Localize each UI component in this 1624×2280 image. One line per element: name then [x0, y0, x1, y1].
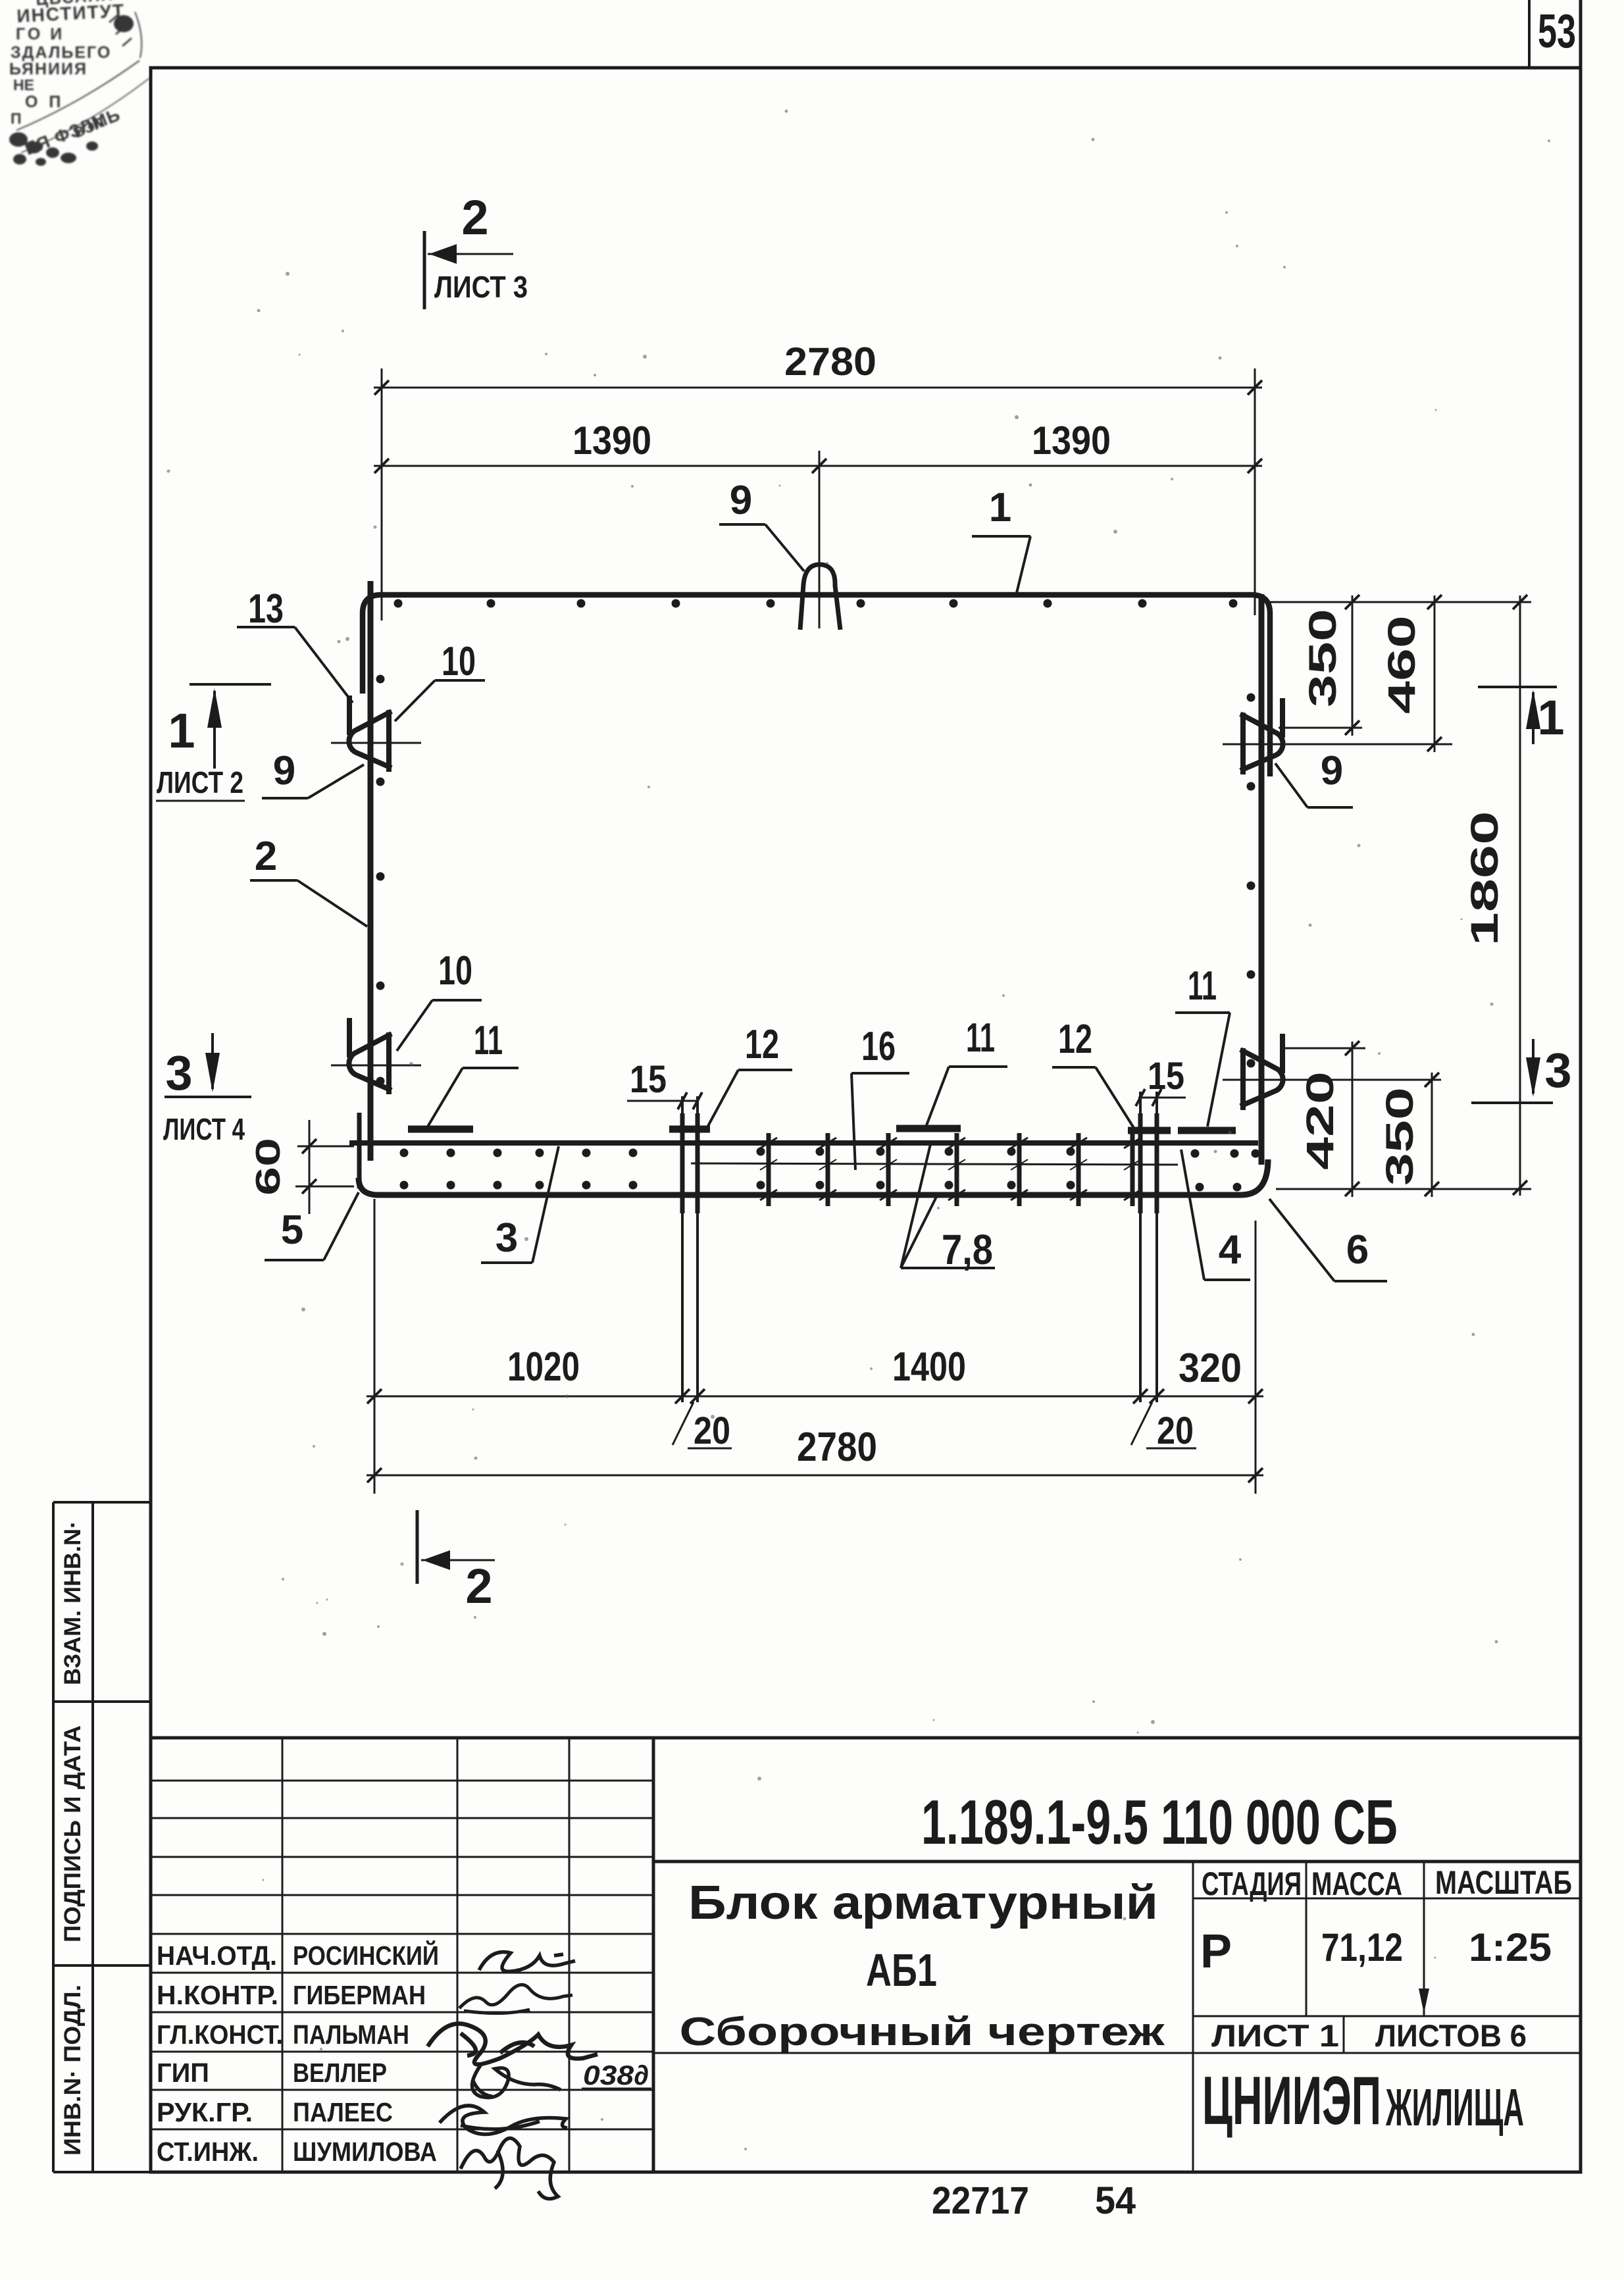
svg-text:Блок арматурный: Блок арматурный	[688, 1877, 1158, 1929]
signature Palman	[428, 2023, 597, 2064]
svg-text:ИНСТИТУТ: ИНСТИТУТ	[16, 0, 126, 26]
svg-text:ГЛ.КОНСТ.: ГЛ.КОНСТ.	[157, 2019, 283, 2050]
weld plate 11 middle-right	[896, 1125, 961, 1132]
label 11 right	[1175, 963, 1230, 1127]
rebar 5: bottom-left stub	[357, 1113, 362, 1188]
section marker 2 bottom	[417, 1510, 495, 1613]
label 6	[1269, 1199, 1387, 1281]
svg-text:350: 350	[1379, 1087, 1421, 1186]
svg-text:60: 60	[249, 1138, 288, 1196]
svg-text:1: 1	[989, 485, 1011, 530]
svg-text:16: 16	[861, 1024, 896, 1069]
svg-text:ЛИСТ 4: ЛИСТ 4	[163, 1112, 245, 1146]
svg-text:ЬЯНИИЯ: ЬЯНИИЯ	[9, 60, 88, 78]
svg-text:ИНВ.N· ПОДЛ.: ИНВ.N· ПОДЛ.	[60, 1985, 86, 2156]
svg-text:038∂: 038∂	[583, 2060, 649, 2090]
label 9 top center	[719, 478, 804, 571]
signature Shumilova	[461, 2138, 558, 2198]
dimension 60 bottom left	[249, 1120, 354, 1214]
svg-text:МАССА: МАССА	[1311, 1865, 1402, 1902]
svg-text:ШУМИЛОВА: ШУМИЛОВА	[293, 2137, 437, 2167]
sheet number 53 box	[1529, 0, 1576, 68]
signature Giberman	[459, 1985, 572, 2013]
svg-text:ВЗАМ. ИНВ.N·: ВЗАМ. ИНВ.N·	[60, 1521, 86, 1685]
svg-text:ГО И: ГО И	[16, 25, 64, 43]
dimension 15 right	[1136, 1055, 1186, 1106]
svg-text:2: 2	[461, 190, 488, 245]
svg-text:71,12: 71,12	[1321, 1925, 1403, 1969]
svg-text:1: 1	[168, 703, 195, 758]
signature Veller	[472, 2064, 561, 2098]
label 10 upper	[395, 639, 485, 721]
svg-text:10: 10	[442, 639, 476, 684]
weld plate 12 right	[1128, 1127, 1171, 1134]
signature Rosinskiy	[479, 1952, 575, 1971]
svg-text:ПАЛЬМАН: ПАЛЬМАН	[293, 2019, 409, 2050]
svg-text:П: П	[11, 110, 22, 127]
svg-text:ЖИЛИЩА: ЖИЛИЩА	[1385, 2078, 1524, 2137]
svg-text:Сборочный чертеж: Сборочный чертеж	[680, 2010, 1166, 2054]
label 12 left	[707, 1022, 792, 1127]
svg-text:3: 3	[165, 1046, 192, 1100]
svg-text:5: 5	[281, 1207, 303, 1253]
svg-text:11: 11	[966, 1015, 995, 1061]
section marker 1 left, to sheet 2	[156, 684, 271, 801]
dimension 1860 right	[1276, 595, 1531, 1196]
section marker 1 right	[1478, 687, 1565, 745]
rebar pair and ext lines at right 20 gap	[1140, 1092, 1157, 1402]
crossing rebars 7,8 with weld ticks	[760, 1133, 1141, 1206]
svg-text:6: 6	[1346, 1227, 1369, 1273]
label 5	[265, 1192, 359, 1260]
svg-text:2: 2	[465, 1559, 492, 1613]
svg-text:ГИП: ГИП	[157, 2058, 209, 2088]
svg-text:1.189.1-9.5 110 000 СБ: 1.189.1-9.5 110 000 СБ	[921, 1787, 1398, 1858]
svg-text:320: 320	[1179, 1346, 1242, 1391]
svg-text:ЛИСТ 1: ЛИСТ 1	[1211, 2018, 1339, 2053]
label 20 right	[1131, 1402, 1196, 1452]
dimension 420 bottom right	[1285, 1041, 1365, 1197]
lifting loop 9 top center	[800, 565, 840, 630]
hook 9 upper right	[1240, 698, 1283, 774]
label 16	[851, 1024, 909, 1170]
bottom dimension row 1020 1400 320	[367, 1199, 1263, 1494]
rebar right vertical bar	[1259, 594, 1265, 1165]
label 13	[237, 586, 353, 703]
svg-text:12: 12	[745, 1022, 779, 1067]
rebar pair and ext lines at left 20 gap	[682, 1096, 698, 1402]
thin distribution bar 16	[691, 1163, 1178, 1165]
svg-text:1:25: 1:25	[1469, 1925, 1552, 1969]
dimension 15 left	[627, 1058, 702, 1109]
svg-text:1390: 1390	[1032, 418, 1111, 463]
archive footer numbers 22717 54	[932, 2179, 1136, 2222]
svg-text:20: 20	[1157, 1409, 1194, 1452]
svg-text:9: 9	[273, 748, 295, 794]
svg-text:ЦНИИЭП: ЦНИИЭП	[1202, 2063, 1381, 2139]
svg-text:15: 15	[1148, 1055, 1184, 1098]
dimension 460 top right	[1381, 595, 1442, 752]
dimension 1390+1390	[374, 418, 1262, 473]
svg-text:РОСИНСКИЙ: РОСИНСКИЙ	[293, 1940, 439, 1971]
svg-text:ЛИСТ 2: ЛИСТ 2	[157, 765, 243, 799]
bottom dimension 2780	[367, 1425, 1263, 1482]
weld plate 12 left	[669, 1126, 710, 1133]
section marker 3 left, to sheet 4	[163, 1033, 251, 1146]
svg-text:1: 1	[1537, 690, 1564, 745]
drawing name	[680, 1877, 1166, 2054]
svg-text:АБ1: АБ1	[866, 1944, 937, 1996]
svg-text:Р: Р	[1200, 1925, 1232, 1978]
label 11 middle	[926, 1015, 1007, 1125]
rebar 6: bottom chord bottom line with corners	[359, 1159, 1268, 1195]
weld plate 11 right	[1178, 1127, 1236, 1134]
label 1	[972, 485, 1030, 593]
svg-text:420: 420	[1299, 1071, 1342, 1170]
svg-text:3: 3	[495, 1215, 518, 1261]
svg-text:4: 4	[1219, 1227, 1242, 1273]
stadia massa masshtab row	[1200, 1864, 1572, 2053]
rebar 2: left vertical bar	[368, 581, 374, 1161]
svg-text:10: 10	[438, 948, 472, 994]
svg-text:11: 11	[1188, 963, 1217, 1009]
svg-text:ЛИСТОВ 6: ЛИСТОВ 6	[1375, 2018, 1527, 2053]
svg-text:9: 9	[730, 478, 752, 523]
svg-text:ЗДАЛЬЕГО: ЗДАЛЬЕГО	[11, 43, 111, 62]
label 7,8 with two leaders	[901, 1142, 995, 1273]
svg-text:ВЕЛЛЕР: ВЕЛЛЕР	[293, 2058, 387, 2088]
label 20 left	[672, 1402, 732, 1452]
dimension 2780 top	[374, 340, 1262, 628]
svg-text:ПОДПИСЬ И ДАТА: ПОДПИСЬ И ДАТА	[60, 1725, 86, 1942]
title block grid	[151, 1738, 1581, 2172]
svg-text:1860: 1860	[1463, 811, 1506, 946]
svg-text:350: 350	[1302, 609, 1344, 707]
svg-text:Н.КОНТР.: Н.КОНТР.	[157, 1980, 278, 2010]
svg-text:ЛИСТ 3: ЛИСТ 3	[434, 270, 528, 304]
rebar 1: top bar with corner bends	[363, 595, 1270, 776]
svg-text:НЕ: НЕ	[13, 76, 34, 93]
svg-text:11: 11	[474, 1018, 503, 1063]
svg-text:О П: О П	[25, 93, 64, 111]
TSNIIEP zhilishcha logo text	[1202, 2063, 1524, 2139]
svg-text:ПАЛЕЕС: ПАЛЕЕС	[293, 2097, 393, 2127]
svg-text:1020: 1020	[507, 1344, 580, 1390]
svg-text:53: 53	[1538, 5, 1576, 58]
label 10 lower	[397, 948, 482, 1051]
svg-text:54: 54	[1095, 2179, 1136, 2222]
svg-text:2780: 2780	[797, 1425, 877, 1470]
label 3	[481, 1146, 559, 1263]
label 11 left	[428, 1018, 519, 1127]
svg-text:22717: 22717	[932, 2179, 1029, 2222]
label 9 left	[262, 748, 364, 798]
svg-text:ГИБЕРМАН: ГИБЕРМАН	[293, 1980, 426, 2010]
svg-text:1400: 1400	[892, 1344, 966, 1390]
vertical captions in margin boxes	[60, 1521, 86, 2156]
dimension 350 bottom right	[1379, 1073, 1439, 1197]
weld plate 11 left	[408, 1126, 473, 1133]
svg-text:СТАДИЯ: СТАДИЯ	[1202, 1865, 1302, 1902]
svg-text:НАЧ.ОТД.: НАЧ.ОТД.	[157, 1940, 277, 1971]
svg-text:9: 9	[1321, 748, 1343, 794]
svg-text:15: 15	[630, 1058, 667, 1101]
staff rows: titles and names	[157, 1940, 439, 2167]
label 12 right	[1052, 1017, 1134, 1128]
svg-text:13: 13	[248, 586, 284, 632]
label 2	[250, 834, 367, 926]
left margin stamp boxes	[53, 1502, 151, 2172]
svg-text:12: 12	[1058, 1017, 1092, 1062]
hook 10 lower left	[331, 1018, 421, 1094]
dimension 350 top right	[1270, 595, 1531, 736]
scan speckles	[167, 110, 1551, 2151]
rebar cross-section dots	[376, 599, 1260, 1192]
svg-text:РУК.ГР.: РУК.ГР.	[157, 2097, 253, 2127]
svg-text:3: 3	[1544, 1043, 1571, 1098]
svg-text:2: 2	[255, 834, 277, 879]
label 9 right	[1275, 748, 1353, 807]
rebar 3: bottom chord top line	[349, 1140, 1258, 1146]
section marker 2 top, to sheet 3	[424, 190, 528, 309]
svg-text:1390: 1390	[572, 418, 651, 463]
hook 10 upper left	[331, 696, 421, 772]
signature Palees	[440, 2106, 567, 2134]
hook lower right	[1240, 1034, 1283, 1110]
svg-text:2780: 2780	[784, 340, 876, 384]
svg-text:7,8: 7,8	[942, 1226, 993, 1273]
label 4	[1181, 1150, 1250, 1280]
svg-text:460: 460	[1381, 615, 1423, 714]
section marker 3 right	[1471, 1039, 1572, 1103]
svg-text:МАСШТАБ: МАСШТАБ	[1435, 1864, 1572, 1901]
svg-text:СТ.ИНЖ.: СТ.ИНЖ.	[157, 2137, 259, 2167]
